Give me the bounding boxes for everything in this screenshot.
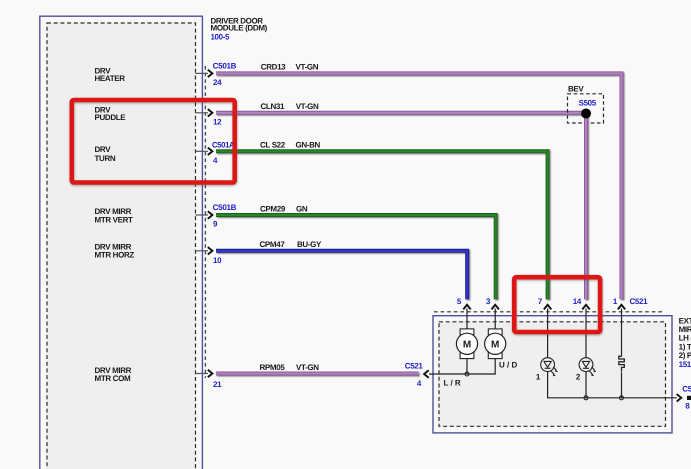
connector label C521 pin 8 (right exit) <box>682 385 691 411</box>
svg-text:14: 14 <box>573 297 582 306</box>
connector label C521 pin 4 (left exit) <box>405 362 424 388</box>
junction resistor on rail <box>620 396 624 400</box>
svg-text:151-5: 151-5 <box>679 360 691 369</box>
svg-text:U / D: U / D <box>499 361 517 370</box>
svg-text:MTR HORZ: MTR HORZ <box>95 251 135 260</box>
svg-text:CPM29: CPM29 <box>260 204 286 213</box>
svg-text:C521: C521 <box>405 362 424 371</box>
svg-text:BEV: BEV <box>568 84 584 93</box>
svg-text:CRD13: CRD13 <box>261 63 286 72</box>
connector label C501A pin 4 <box>212 140 235 165</box>
svg-text:12: 12 <box>213 117 222 126</box>
wire S505 to mirror pin 14 (VT-GN) <box>584 114 588 300</box>
connector label C501B pin 24 <box>213 61 237 87</box>
svg-text:C501B: C501B <box>213 203 237 212</box>
svg-text:M: M <box>491 340 499 351</box>
pin label DRV MIRR MTR COM <box>95 366 132 383</box>
mirror box interior fill <box>439 322 666 427</box>
mirror pin 14 arrow and stub <box>582 305 589 362</box>
motor M2 (U/D) <box>485 329 506 359</box>
mirror box outer solid border <box>433 316 672 433</box>
svg-text:GN-BN: GN-BN <box>296 141 321 150</box>
motor M1 (L/R) <box>456 329 477 359</box>
svg-text:CL S22: CL S22 <box>260 141 286 150</box>
svg-text:MTR VERT: MTR VERT <box>95 215 134 224</box>
svg-text:BU-GY: BU-GY <box>297 240 322 249</box>
wire label CLN31 VT-GN <box>261 102 319 111</box>
wire label CL S22 GN-BN <box>260 141 321 150</box>
wire CRD13 VT-GN (DDM 24 to mirror pin 1) <box>216 73 622 299</box>
svg-text:LH (BEV): LH (BEV) <box>679 334 691 343</box>
svg-text:C521: C521 <box>630 297 649 306</box>
svg-text:10: 10 <box>213 256 222 265</box>
svg-text:CLN31: CLN31 <box>261 102 285 111</box>
svg-text:VT-GN: VT-GN <box>296 102 319 111</box>
C521 pin 8 exit arrow (points right) <box>677 394 682 401</box>
C521 pin 4 exit arrow (points left) <box>424 370 429 377</box>
mirror pin 3 arrow and stub <box>492 305 499 330</box>
pin label DRV MIRR MTR VERT <box>95 207 134 225</box>
splice S505 BEV dashed box <box>568 84 604 123</box>
svg-text:2) PUDDLE: 2) PUDDLE <box>679 351 691 360</box>
svg-text:24: 24 <box>213 78 222 87</box>
wire lamp 1 to bottom rail <box>548 360 677 398</box>
svg-text:EXTERIOR: EXTERIOR <box>679 316 691 325</box>
module DDM title <box>211 16 268 41</box>
module DDM outer solid border <box>40 16 203 469</box>
module DDM inner dashed border <box>47 23 196 469</box>
red highlight box 2 (mirror pins 7 and 14) <box>514 277 600 332</box>
svg-text:VT-GN: VT-GN <box>296 63 319 72</box>
wire CPM29 GN (DDM 9 to mirror pin 3) <box>216 215 496 299</box>
splice dot S505 <box>581 109 591 119</box>
exterior mirror LH title text (clipped at right edge) <box>679 316 691 369</box>
DDM pin 12 stub and arrow <box>196 109 213 116</box>
wire label RPM05 VT-GN <box>260 363 320 372</box>
svg-text:PUDDLE: PUDDLE <box>95 113 127 122</box>
svg-text:GN: GN <box>296 204 308 213</box>
wire label CRD13 VT-GN <box>261 63 319 72</box>
DDM pin 21 stub and arrow <box>196 370 213 377</box>
svg-text:MTR COM: MTR COM <box>95 374 131 383</box>
module DDM interior fill <box>47 23 196 469</box>
pin label DRV MIRR MTR HORZ <box>95 242 135 259</box>
svg-text:C521: C521 <box>682 385 691 394</box>
svg-text:L / R: L / R <box>444 378 461 387</box>
svg-text:100-5: 100-5 <box>211 32 230 41</box>
wire motor M1 to common node <box>466 358 468 374</box>
svg-text:1) TURN: 1) TURN <box>679 342 691 351</box>
heater resistor element <box>619 356 625 371</box>
svg-text:M: M <box>463 340 471 351</box>
svg-text:S505: S505 <box>579 98 597 107</box>
wire RPM05 VT-GN (DDM 21 to mirror C521 pin 4) <box>216 372 419 376</box>
svg-text:MIRROR: MIRROR <box>679 325 691 334</box>
wire CL S22 GN-BN (DDM 4 to mirror pin 7) <box>216 151 548 299</box>
svg-text:HEATER: HEATER <box>95 74 126 83</box>
connector label C501B pin 9 <box>213 203 237 229</box>
wire CLN31 VT-GN (DDM 12 to splice S505) <box>216 111 586 115</box>
svg-text:CPM47: CPM47 <box>260 240 286 249</box>
mirror pin 5 arrow and stub <box>463 305 470 330</box>
wire label CPM29 GN <box>260 204 308 213</box>
pin label DRV PUDDLE <box>95 106 127 123</box>
mirror pin 1 arrow and stub <box>618 305 625 357</box>
wire CPM47 BU-GY (DDM 10 to mirror pin 5) <box>216 251 467 299</box>
wire motor M2 down to common wire <box>467 358 495 374</box>
black wire continuing right at pin 8 <box>687 396 691 400</box>
pin label DRV TURN <box>95 145 116 163</box>
wire lamp 2 to bottom rail <box>585 360 587 398</box>
mirror box inner dashed border <box>439 322 666 427</box>
pin label DRV HEATER <box>95 66 126 83</box>
junction lamp 2 on rail <box>584 396 588 400</box>
connector C521 dashed line above mirror box <box>434 311 664 313</box>
svg-text:21: 21 <box>213 380 222 389</box>
DDM pin 10 stub and arrow <box>196 247 213 254</box>
svg-text:TURN: TURN <box>95 154 116 163</box>
mirror pin 7 arrow and stub <box>544 305 551 362</box>
DDM pin 9 stub and arrow <box>196 211 213 218</box>
connector C501 dashed line at DDM right edge <box>204 66 206 378</box>
wire common node to C521 pin 4 exit <box>429 373 467 375</box>
svg-text:RPM05: RPM05 <box>260 363 286 372</box>
DDM pin 24 stub and arrow <box>196 70 213 77</box>
wire resistor to bottom rail <box>621 372 623 397</box>
svg-text:VT-GN: VT-GN <box>296 363 319 372</box>
lamp 2 (puddle) <box>579 358 596 377</box>
junction at motor common node <box>465 372 469 376</box>
red highlight box 1 (DRV PUDDLE / DRV TURN) <box>72 100 235 183</box>
wire label CPM47 BU-GY <box>260 240 323 249</box>
svg-text:C501B: C501B <box>213 61 237 70</box>
DDM pin 4 stub and arrow <box>196 148 213 155</box>
svg-text:C501A: C501A <box>212 140 235 149</box>
lamp 1 (turn signal) <box>541 358 558 377</box>
